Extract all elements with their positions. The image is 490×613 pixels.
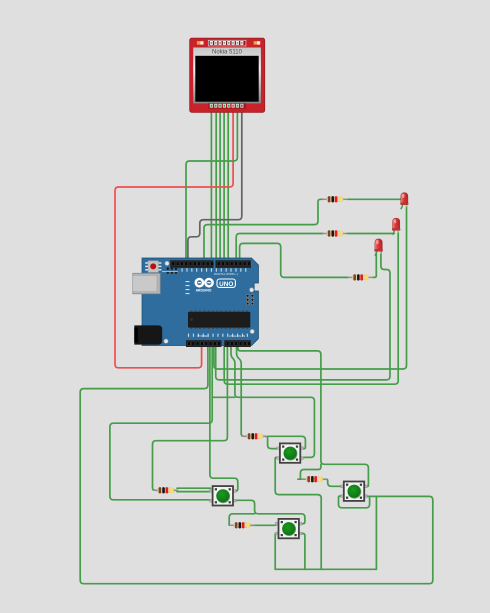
svg-text:UNO: UNO <box>219 281 233 288</box>
svg-text:ARDUINO: ARDUINO <box>196 288 212 292</box>
svg-text:DIGITAL (PWM ~): DIGITAL (PWM ~) <box>214 272 238 276</box>
svg-text:Nokia 5110: Nokia 5110 <box>212 50 243 56</box>
svg-text:ANALOG IN: ANALOG IN <box>229 334 245 338</box>
svg-text:POWER: POWER <box>197 334 209 338</box>
